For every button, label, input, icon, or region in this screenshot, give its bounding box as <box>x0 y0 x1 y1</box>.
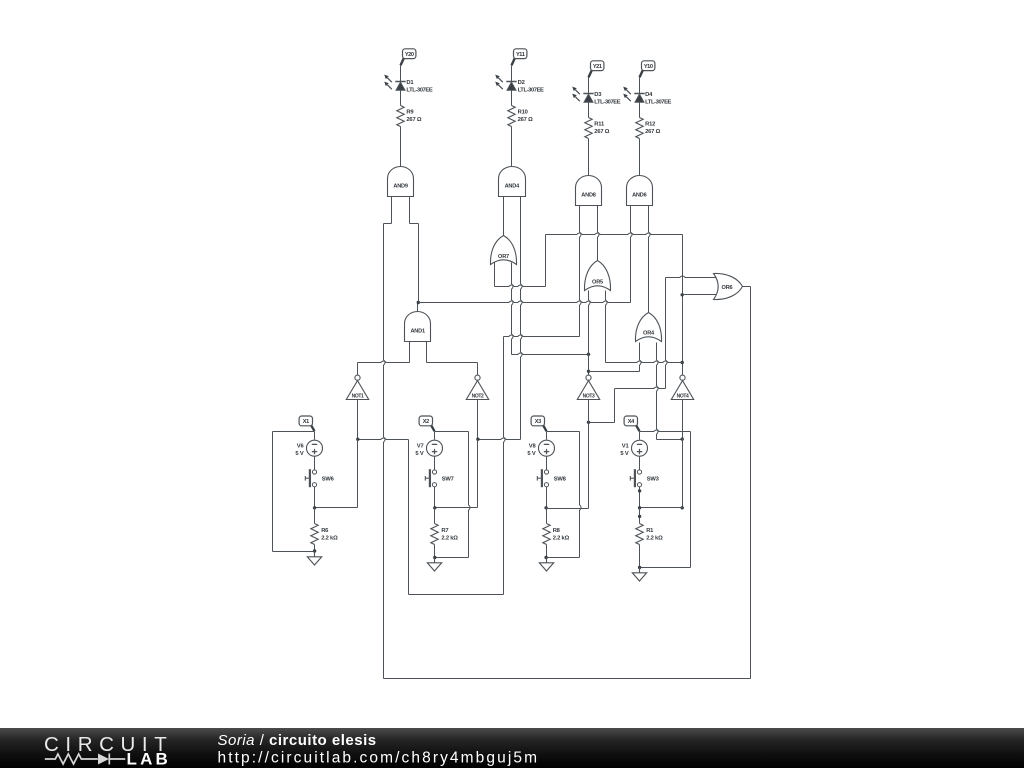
resistor R9 <box>397 106 404 127</box>
node label Y21 <box>589 70 592 77</box>
wire X3 return loop <box>580 432 582 558</box>
OR gate OR7 <box>490 236 516 265</box>
inverter NOT2 <box>475 375 480 380</box>
wire AND4 input A to OR7 output <box>503 197 505 236</box>
wire OR7 input B <box>512 263 514 355</box>
svg-text:OR6: OR6 <box>722 285 733 291</box>
node SW8 bottom junction <box>544 506 547 509</box>
svg-text:2.2 kΩ: 2.2 kΩ <box>321 536 338 542</box>
svg-text:5 V: 5 V <box>527 451 535 457</box>
node NOT3.in junction <box>587 421 590 424</box>
voltage source V1 <box>632 440 648 456</box>
wire bus to OR6 input B <box>546 233 683 235</box>
svg-text:Y10: Y10 <box>644 64 653 70</box>
wire D2 to R10 <box>511 91 513 106</box>
svg-text:R6: R6 <box>321 528 329 534</box>
svg-text:X2: X2 <box>423 419 429 425</box>
svg-text:LTL-307EE: LTL-307EE <box>594 99 620 105</box>
wire NOT2 output to AND1 input B <box>477 363 479 376</box>
node SW6 bottom junction <box>313 506 316 509</box>
wire NOT4 output vertical <box>682 235 684 376</box>
wire V7 to SW7 <box>434 457 436 470</box>
svg-text:NOT1: NOT1 <box>352 394 364 400</box>
wire R8 to ground <box>546 545 548 558</box>
svg-text:V8: V8 <box>529 444 537 450</box>
node SW3 junction <box>681 506 684 509</box>
wire OR5 input A to NOT3 output <box>589 291 591 376</box>
voltage source V6 <box>307 440 323 456</box>
wire NOT1 output to AND1 input A <box>357 363 359 376</box>
wire AND8 input A down <box>580 206 582 337</box>
inverter NOT1 <box>355 375 360 380</box>
node NOT2.in junction <box>476 438 479 441</box>
svg-text:X3: X3 <box>535 419 541 425</box>
svg-text:2.2 kΩ: 2.2 kΩ <box>441 536 458 542</box>
wire X4 node <box>640 430 691 432</box>
wire NOT3 input <box>588 400 590 423</box>
resistor R10 <box>508 106 515 127</box>
svg-text:OR7: OR7 <box>498 254 509 260</box>
wire D1 to R9 <box>400 91 402 106</box>
wire R9 to AND9 output <box>400 127 402 167</box>
node SW7 bottom junction <box>433 506 436 509</box>
wire X3 node <box>547 431 580 433</box>
svg-text:Y11: Y11 <box>516 52 525 58</box>
svg-text:R12: R12 <box>645 122 655 128</box>
node label Y10 <box>640 70 643 77</box>
svg-text:SW8: SW8 <box>554 476 567 482</box>
svg-text:R8: R8 <box>553 528 561 534</box>
wire SW8 to R8 <box>546 487 548 508</box>
svg-text:AND6: AND6 <box>632 193 647 199</box>
svg-text:AND9: AND9 <box>393 184 408 190</box>
pushbutton switch SW8 <box>537 469 548 487</box>
svg-text:R1: R1 <box>646 528 654 534</box>
svg-text:LAB: LAB <box>127 750 172 768</box>
AND gate AND6 <box>627 176 653 206</box>
wire R1 to ground <box>639 545 641 568</box>
wire AND9 input A to big loop <box>391 197 393 224</box>
svg-text:D2: D2 <box>518 80 525 86</box>
node label Y11 <box>512 58 515 65</box>
node R7 ground junction <box>433 556 436 559</box>
inverter NOT4 <box>680 375 685 380</box>
wire NOT1 input <box>357 400 359 440</box>
LED D3 <box>572 87 594 103</box>
svg-text:2.2 kΩ: 2.2 kΩ <box>646 536 663 542</box>
svg-text:Y20: Y20 <box>405 52 414 58</box>
AND gate AND4 <box>499 167 526 197</box>
AND gate AND9 <box>388 167 414 197</box>
svg-text:267 Ω: 267 Ω <box>645 129 660 135</box>
logo waveform diode <box>98 754 109 765</box>
wire V6 to SW6 <box>314 457 316 470</box>
svg-text:V1: V1 <box>622 444 630 450</box>
svg-text:D3: D3 <box>594 92 602 98</box>
svg-text:R11: R11 <box>594 122 605 128</box>
svg-text:OR4: OR4 <box>643 331 655 337</box>
wire X1 node <box>273 431 315 433</box>
wire X2 node <box>435 431 469 433</box>
node label Y20 <box>401 58 404 65</box>
wire OR4 input B to NOT4 node <box>657 343 659 440</box>
wire OR7 input A <box>494 263 496 287</box>
pushbutton switch SW7 <box>425 469 436 487</box>
wire Y20 to D1 <box>400 66 402 82</box>
svg-text:5 V: 5 V <box>295 451 303 457</box>
wire X4 return loop <box>690 432 692 568</box>
node R6 ground junction <box>313 549 316 552</box>
wire R10 to AND4 output <box>511 127 513 167</box>
svg-text:D1: D1 <box>406 80 414 86</box>
AND gate AND1 <box>405 312 431 342</box>
resistor R6 <box>311 524 318 545</box>
wire D3 to R11 <box>588 103 590 118</box>
wire NOT4 input <box>682 400 684 440</box>
svg-text:2.2 kΩ: 2.2 kΩ <box>553 536 570 542</box>
resistor R12 <box>636 118 643 139</box>
wire AND1 output <box>417 303 419 312</box>
wire D4 to R12 <box>639 103 641 118</box>
node SW3 bottom junction <box>638 506 641 509</box>
wire X1 to V6 <box>314 432 316 440</box>
pushbutton switch SW6 <box>305 469 316 487</box>
resistor R1 <box>636 524 643 545</box>
svg-text:SW6: SW6 <box>322 476 335 482</box>
svg-text:NOT4: NOT4 <box>677 394 689 400</box>
node AND1.out junction <box>417 301 420 304</box>
wire X2 to V7 <box>434 432 436 440</box>
wire Y21 to D3 <box>588 78 590 94</box>
wire SW3 to R1 <box>639 487 641 508</box>
voltage source V7 <box>427 440 443 456</box>
wire OR6 output big loop <box>743 286 751 288</box>
pushbutton switch SW3 <box>630 469 641 487</box>
wire X1 return loop <box>272 432 274 552</box>
wire AND4 input B down to NOT2 node <box>521 197 523 440</box>
wire X3 to V8 <box>546 432 548 440</box>
resistor R7 <box>431 524 438 545</box>
LED D2 <box>495 75 517 91</box>
wire R6 to ground <box>314 545 316 552</box>
svg-text:SW3: SW3 <box>647 476 660 482</box>
logo waveform resistor <box>45 754 98 764</box>
wire R12 to AND6 output <box>639 139 641 176</box>
wire AND9 input B down <box>409 197 411 224</box>
node label X4 <box>636 425 639 431</box>
wire V8 to SW8 <box>546 457 548 470</box>
svg-text:267 Ω: 267 Ω <box>406 117 421 123</box>
wire OR4 input A to NOT3 output <box>640 343 642 372</box>
node NOT4.out junction <box>681 361 684 364</box>
OR gate OR6 <box>714 273 743 299</box>
svg-text:267 Ω: 267 Ω <box>594 129 609 135</box>
svg-text:Soria / circuito elesis: Soria / circuito elesis <box>218 732 377 749</box>
svg-text:LTL-307EE: LTL-307EE <box>518 87 544 93</box>
wire R7 to ground <box>434 545 436 558</box>
svg-text:V7: V7 <box>417 444 424 450</box>
wire OR6 input B <box>683 294 717 296</box>
wire Y11 to D2 <box>511 66 513 82</box>
svg-text:AND1: AND1 <box>410 329 425 335</box>
node NOT3.out junction A <box>587 353 590 356</box>
wire SW6 to R6 <box>314 487 316 508</box>
resistor R8 <box>543 524 550 545</box>
node R1 ground junction <box>638 566 641 569</box>
svg-text:267 Ω: 267 Ω <box>518 117 533 123</box>
wire X2 return loop <box>469 432 471 558</box>
wire SW7 to R7 <box>434 487 436 508</box>
wire NOT2 input <box>477 400 479 440</box>
wire AND8 input B to OR5 output <box>598 206 600 261</box>
svg-text:NOT2: NOT2 <box>472 394 484 400</box>
svg-text:AND8: AND8 <box>581 193 596 199</box>
wire AND1 output to AND6 input A <box>419 301 631 303</box>
LED D4 <box>623 87 645 103</box>
svg-text:AND4: AND4 <box>505 184 521 190</box>
svg-text:R9: R9 <box>406 110 414 116</box>
wire V1 to SW3 <box>639 457 641 470</box>
svg-text:R7: R7 <box>441 528 448 534</box>
OR gate OR5 <box>584 261 610 291</box>
svg-text:R10: R10 <box>518 110 528 116</box>
wire R11 to AND8 output <box>588 139 590 176</box>
ground GND R8 <box>539 558 553 572</box>
svg-text:Y21: Y21 <box>593 64 602 70</box>
node label X1 <box>311 425 314 431</box>
node label X2 <box>431 425 434 431</box>
wire big loop left vertical <box>384 224 386 679</box>
svg-text:NOT3: NOT3 <box>583 394 595 400</box>
wire OR6 input A to NOT3 node <box>666 276 717 278</box>
svg-text:LTL-307EE: LTL-307EE <box>406 87 432 93</box>
resistor R11 <box>585 118 592 139</box>
voltage source V8 <box>539 440 555 456</box>
svg-text:SW7: SW7 <box>442 476 454 482</box>
node OR6.in2 junction <box>681 293 684 296</box>
ground GND R7 <box>427 558 441 572</box>
inverter NOT3 <box>586 375 591 380</box>
wire X4 to V1 <box>639 432 641 440</box>
svg-text:V6: V6 <box>297 444 305 450</box>
svg-text:http://circuitlab.com/ch8ry4mb: http://circuitlab.com/ch8ry4mbguj5m <box>218 749 540 766</box>
wire AND6 input B to OR4 output <box>649 206 651 313</box>
ground GND R1 <box>632 568 646 582</box>
svg-text:D4: D4 <box>645 92 653 98</box>
svg-text:5 V: 5 V <box>620 451 628 457</box>
node NOT1.in junction <box>356 438 359 441</box>
wire OR5 input B to NOT4 output <box>606 291 608 363</box>
wire Y10 to D4 <box>639 78 641 94</box>
node R8 ground junction <box>544 556 547 559</box>
node NOT4.in junction <box>681 437 684 440</box>
svg-text:LTL-307EE: LTL-307EE <box>645 99 671 105</box>
svg-text:X1: X1 <box>303 419 309 425</box>
OR gate OR4 <box>635 313 661 342</box>
svg-text:5 V: 5 V <box>415 451 423 457</box>
node label X3 <box>543 425 546 431</box>
AND gate AND8 <box>576 176 602 206</box>
LED D1 <box>384 75 406 91</box>
ground GND R6 <box>307 552 321 566</box>
node NOT3.out junction B <box>587 370 590 373</box>
svg-text:OR5: OR5 <box>592 279 603 285</box>
